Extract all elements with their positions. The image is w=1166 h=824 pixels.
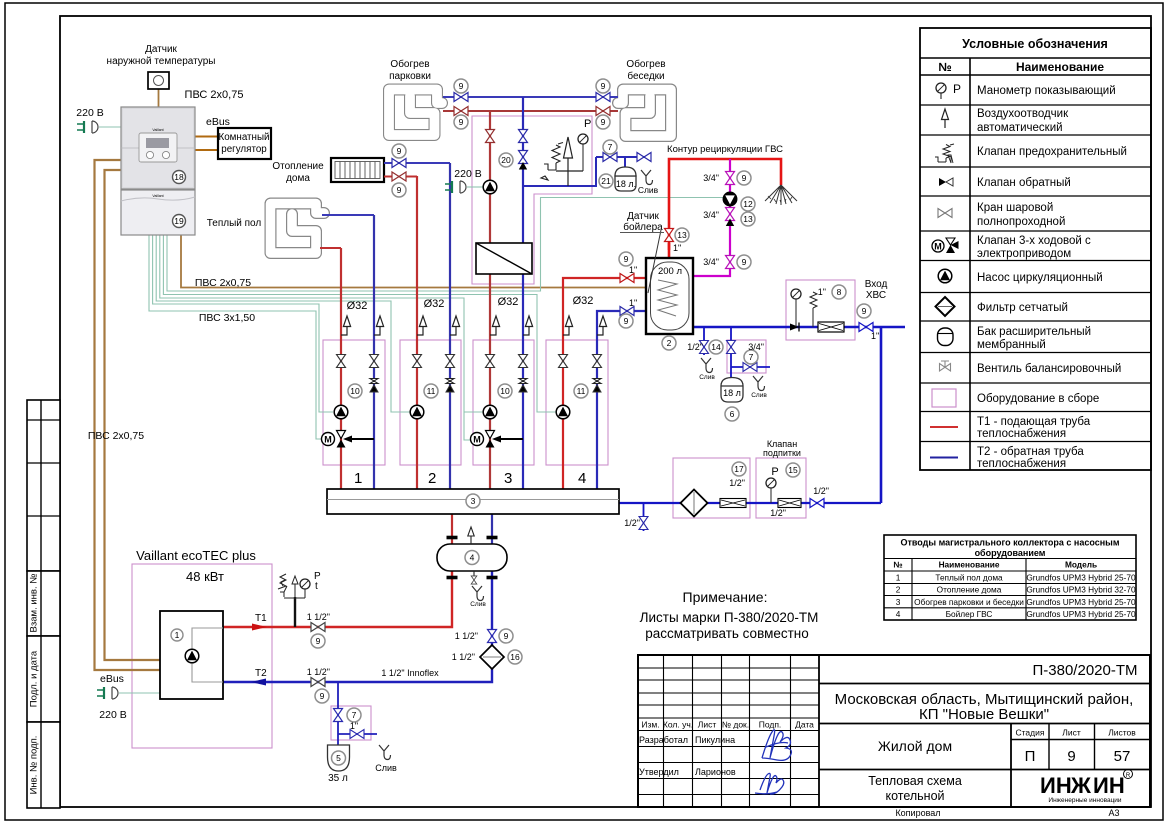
callout 16 at 515,657: [508, 650, 522, 664]
podpitka unit 8: check valve: [790, 323, 799, 332]
callout 3 at 473,501: [466, 494, 480, 508]
svg-text:9: 9: [1067, 748, 1075, 765]
svg-text:13: 13: [743, 214, 753, 224]
svg-text:9: 9: [397, 185, 402, 195]
brown wires boiler left down to ecoTEC: [95, 160, 161, 670]
svg-text:10: 10: [350, 386, 360, 396]
pink box make-up valve 7 (bottom): [331, 706, 371, 740]
T1 gauge group: air vent: [294, 590, 296, 598]
svg-text:1 1/2" Innoflex: 1 1/2" Innoflex: [381, 668, 439, 678]
legend symbol: 3-way valve with actuator: [932, 238, 959, 253]
svg-text:3/4": 3/4": [703, 173, 719, 183]
valves gazebo coil: [596, 93, 610, 102]
svg-text:M: M: [934, 242, 942, 252]
collector to separator red: [451, 514, 453, 544]
INZHIN logo: [1040, 770, 1133, 805]
svg-text:1": 1": [350, 721, 358, 731]
wire to M-valve group1: [149, 235, 325, 439]
svg-text:рассматривать совместно: рассматривать совместно: [645, 626, 809, 641]
safety group: air vent: [567, 158, 569, 171]
strainer 16 diamond: [480, 645, 504, 669]
svg-text:1": 1": [673, 243, 681, 253]
legend symbol: expansion tank: [938, 328, 954, 346]
svg-text:Теплый пол дома: Теплый пол дома: [935, 573, 1003, 583]
svg-text:220 В: 220 В: [76, 107, 103, 119]
svg-text:7: 7: [608, 142, 613, 152]
valve 13 on DHW riser: [665, 229, 674, 242]
svg-text:Ларионов: Ларионов: [695, 767, 736, 777]
svg-text:Подл. и дата: Подл. и дата: [29, 650, 40, 707]
pink box strainer 17: [673, 458, 750, 518]
svg-text:9: 9: [742, 257, 747, 267]
callout 11 at 431,391: [424, 384, 438, 398]
pink box mixing unit 20: [472, 116, 592, 284]
callout 9 at 603,122: [596, 115, 610, 129]
svg-text:Инв. № подп.: Инв. № подп.: [29, 736, 40, 795]
callout 7 at 354,715: [347, 708, 361, 722]
brown wire PVS 2x0.75 to DHW tank sensor: [181, 235, 646, 288]
pink box podpitka unit 8: [786, 280, 855, 340]
svg-text:57: 57: [1114, 748, 1131, 765]
T2 valve 1 1/2: [311, 678, 325, 687]
make-up water line to collector: [619, 502, 881, 504]
drain 14 siphon: [701, 358, 713, 373]
svg-text:13: 13: [677, 230, 687, 240]
svg-text:ПВС 2х0,75: ПВС 2х0,75: [185, 89, 244, 101]
expansion/safety branch blue: [523, 157, 649, 186]
separator to T1 red: [223, 571, 452, 627]
svg-text:10: 10: [500, 386, 510, 396]
recirculation pump 12: [723, 192, 737, 206]
T2 parking-gazebo supply blue top: [443, 96, 618, 98]
svg-text:Клапан 3-х ходовой с: Клапан 3-х ходовой с: [977, 235, 1091, 247]
callout 9 at 744,178: [737, 171, 751, 185]
svg-text:9: 9: [397, 146, 402, 156]
svg-text:eBus: eBus: [100, 673, 124, 685]
svg-text:Бак расширительный: Бак расширительный: [977, 326, 1091, 338]
svg-text:Наименование: Наименование: [1016, 60, 1104, 74]
collector to separator blue: [491, 514, 493, 544]
svg-text:Слив: Слив: [470, 601, 486, 608]
svg-text:9: 9: [504, 631, 509, 641]
brown wire sensor to boiler: [158, 89, 160, 107]
svg-text:1: 1: [896, 573, 901, 583]
svg-text:Grundfos UPM3 Hybrid 32-70: Grundfos UPM3 Hybrid 32-70: [1026, 585, 1136, 595]
svg-text:3: 3: [504, 470, 512, 487]
radiator blue pipe: [384, 162, 450, 164]
svg-text:Фильтр сетчатый: Фильтр сетчатый: [977, 302, 1068, 314]
make-up drain valve at collector: [639, 517, 648, 530]
svg-text:Модель: Модель: [1065, 560, 1097, 570]
svg-text:eBus: eBus: [206, 116, 230, 128]
svg-text:17: 17: [734, 464, 744, 474]
svg-text:ИН: ИН: [1040, 773, 1072, 798]
svg-text:П: П: [1025, 748, 1036, 765]
gazebo heating coil: [618, 90, 671, 137]
legend rows text: [977, 85, 1127, 470]
callout 10 at 505,391: [498, 384, 512, 398]
svg-text:6: 6: [730, 409, 735, 419]
legend table: [920, 28, 1151, 470]
svg-text:1": 1": [871, 331, 879, 341]
wire to pump group4: [163, 235, 556, 412]
svg-text:полнопроходной: полнопроходной: [977, 216, 1065, 228]
callout 14 at 716,347: [709, 340, 723, 354]
callout 13 at 682,235: [675, 228, 689, 242]
legend symbol: pressure gauge: [936, 82, 961, 99]
T1 valve 1 1/2: [311, 623, 325, 632]
svg-text:Теплый пол: Теплый пол: [207, 218, 262, 229]
callout 2 at 669,343: [662, 336, 676, 350]
svg-text:220 В: 220 В: [454, 168, 481, 180]
svg-text:Комнатный: Комнатный: [219, 132, 270, 143]
svg-text:Датчик: Датчик: [145, 44, 177, 55]
svg-text:11: 11: [427, 386, 436, 396]
safety group in mixing unit: spring safety valve: [552, 143, 563, 164]
svg-text:Grundfos UPM3 Hybrid 25-70: Grundfos UPM3 Hybrid 25-70: [1026, 573, 1136, 583]
plug 220V at ecoTEC: [97, 687, 118, 699]
svg-text:Манометр показывающий: Манометр показывающий: [977, 85, 1116, 97]
legend symbol: balancing valve: [940, 361, 951, 371]
svg-text:3/4": 3/4": [703, 257, 719, 267]
svg-text:9: 9: [316, 636, 321, 646]
riser blue group1: [373, 215, 375, 489]
tank5 horizontal valve 1": [350, 730, 364, 739]
svg-text:Взам. инв. №: Взам. инв. №: [29, 574, 40, 633]
svg-text:Оборудование в сборе: Оборудование в сборе: [977, 393, 1099, 405]
svg-text:бойлера: бойлера: [623, 221, 663, 233]
legend symbol: T2 line: [930, 457, 958, 459]
valves mixing unit red riser: [486, 130, 495, 143]
callout 9 at 864,311: [857, 304, 871, 318]
callout 9 at 322,696: [315, 689, 329, 703]
svg-text:P: P: [584, 118, 591, 130]
svg-text:Листы марки П-380/2020-ТМ: Листы марки П-380/2020-ТМ: [640, 610, 819, 625]
callout 11 at 581,391: [574, 384, 588, 398]
legend symbol: pump: [938, 269, 952, 283]
callout 9 at 603,86: [596, 79, 610, 93]
drain valve 14: [700, 341, 709, 354]
svg-text:8: 8: [837, 287, 842, 297]
svg-text:48 кВт: 48 кВт: [186, 569, 224, 584]
svg-text:Пикулина: Пикулина: [695, 735, 735, 745]
svg-text:Листов: Листов: [1108, 728, 1136, 738]
drain near tank 21: [641, 170, 653, 185]
air vents on risers: [341, 316, 351, 335]
svg-text:18: 18: [174, 172, 184, 182]
svg-text:Изм.: Изм.: [641, 720, 659, 730]
svg-text:4: 4: [578, 470, 586, 487]
svg-text:Инженерные инновации: Инженерные инновации: [1048, 797, 1122, 804]
svg-text:Бойлер ГВС: Бойлер ГВС: [946, 609, 993, 619]
drain valve on expansion branch: [637, 153, 651, 162]
valve on tank6 branch: [727, 341, 736, 354]
mixing pump 20: [483, 180, 497, 194]
svg-text:14: 14: [711, 342, 721, 352]
pink box pump group 3: [473, 340, 534, 465]
riser red group1: [340, 248, 342, 489]
svg-text:ПВС 3х1,50: ПВС 3х1,50: [199, 312, 255, 324]
svg-text:21: 21: [601, 176, 611, 186]
T1 gauge group: gauge: [300, 579, 310, 589]
svg-text:1 1/2": 1 1/2": [455, 631, 478, 641]
svg-text:M: M: [324, 435, 332, 445]
callout 9 at 626,259: [619, 252, 633, 266]
separator drain valve: [473, 571, 475, 576]
pink box make-up group 7 (near boiler): [727, 340, 766, 373]
svg-text:Слив: Слив: [699, 374, 715, 381]
svg-text:9: 9: [459, 81, 464, 91]
callout 9 at 626,321: [619, 314, 633, 328]
legend symbol: T1 line: [930, 426, 958, 428]
wire plug to ecoTEC (bottom): [119, 692, 160, 694]
warm floor blue pipe: [322, 214, 374, 216]
svg-text:9: 9: [320, 691, 325, 701]
svg-text:Обогрев: Обогрев: [626, 58, 665, 70]
svg-text:Тепловая схема: Тепловая схема: [868, 774, 962, 788]
svg-text:КП "Новые Вешки": КП "Новые Вешки": [919, 706, 1049, 723]
legend symbol: safety valve: [935, 144, 954, 163]
svg-text:автоматический: автоматический: [977, 122, 1063, 134]
svg-text:M: M: [473, 435, 481, 445]
svg-text:Vaillant: Vaillant: [152, 194, 163, 198]
svg-text:4: 4: [470, 553, 475, 563]
valve 7 on expansion branch: [603, 153, 617, 162]
warm floor coil: [271, 204, 325, 254]
riser blue group3 mixing: [522, 97, 524, 489]
svg-text:Отопление дома: Отопление дома: [937, 585, 1002, 595]
svg-text:9: 9: [862, 306, 867, 316]
boiler sensor leader line: [648, 230, 661, 293]
svg-text:теплоснабжения: теплоснабжения: [977, 458, 1066, 470]
svg-text:9: 9: [601, 81, 606, 91]
boiler charge red into tank: [646, 277, 659, 279]
svg-text:Слив: Слив: [638, 185, 659, 195]
svg-text:35 л: 35 л: [328, 773, 348, 784]
svg-text:№ док.: № док.: [722, 720, 749, 730]
svg-text:Т2 - обратная труба: Т2 - обратная труба: [977, 446, 1084, 458]
check valves on blue risers: [370, 379, 601, 393]
wire to recirculation pump 12: [167, 198, 723, 292]
svg-text:Клапан предохранительный: Клапан предохранительный: [977, 146, 1127, 158]
wire to pump/M group3: [160, 235, 483, 440]
expansion tank 6 branch: [731, 327, 770, 380]
svg-text:дома: дома: [286, 173, 310, 184]
gauge in box 15: [766, 478, 776, 488]
svg-text:Ø32: Ø32: [347, 300, 368, 312]
house heating radiator: [331, 158, 384, 182]
svg-text:4: 4: [896, 609, 901, 619]
expansion tank 21 branch: [624, 157, 626, 168]
svg-text:15: 15: [788, 465, 798, 475]
svg-text:регулятор: регулятор: [221, 144, 267, 155]
svg-text:мембранный: мембранный: [977, 339, 1046, 351]
plug 220V top left: [77, 121, 98, 133]
valves mixing unit blue riser: [519, 130, 528, 143]
safety group connecting lines: [556, 171, 583, 186]
svg-text:Воздухоотводчик: Воздухоотводчик: [977, 108, 1069, 120]
svg-text:Grundfos UPM3 Hybrid 25-70: Grundfos UPM3 Hybrid 25-70: [1026, 597, 1136, 607]
make-up drain branch: [643, 503, 645, 531]
callout 9 at 506,636: [499, 629, 513, 643]
svg-text:11: 11: [577, 386, 586, 396]
svg-text:теплоснабжения: теплоснабжения: [977, 428, 1066, 440]
svg-text:Обогрев парковки и беседки: Обогрев парковки и беседки: [914, 597, 1024, 607]
svg-text:3: 3: [896, 597, 901, 607]
svg-text:220 В: 220 В: [99, 709, 126, 721]
callout 5 at 338.5,758: [332, 751, 346, 765]
callout 9 at 318,641: [311, 634, 325, 648]
riser red group4 boiler charge: [563, 278, 646, 489]
XVS inlet riser down: [880, 327, 883, 503]
valves radiator: [392, 159, 406, 168]
svg-text:1/2": 1/2": [770, 508, 786, 518]
wire plug to pump 20: [467, 186, 483, 188]
callout 8 at 839,292: [832, 285, 846, 299]
svg-text:16: 16: [510, 652, 520, 662]
pink box pump group 1: [323, 340, 385, 465]
svg-text:3/4": 3/4": [703, 210, 719, 220]
svg-text:2: 2: [428, 470, 436, 487]
pink box pump group 2: [400, 340, 461, 465]
svg-text:P: P: [953, 82, 961, 96]
callout 9 at 744,262: [737, 255, 751, 269]
podpitka unit 8: pressure reducer: [818, 322, 844, 332]
callout 7 at 610,147: [603, 140, 617, 154]
svg-text:2: 2: [896, 585, 901, 595]
wire plug to boiler (top): [99, 126, 121, 128]
svg-text:Примечание:: Примечание:: [683, 589, 768, 605]
svg-text:Vaillant ecoTEC plus: Vaillant ecoTEC plus: [136, 548, 256, 563]
legend symbol: check valve: [939, 178, 953, 186]
warm floor red pipe: [320, 247, 341, 249]
svg-text:Наименование: Наименование: [939, 560, 1000, 570]
svg-text:подпитки: подпитки: [763, 448, 801, 458]
DHW recirculation magenta line: [694, 159, 730, 276]
svg-text:7: 7: [749, 352, 754, 362]
svg-text:Лист: Лист: [698, 720, 717, 730]
svg-text:П-380/2020-ТМ: П-380/2020-ТМ: [1033, 662, 1138, 679]
svg-text:1/2": 1/2": [624, 518, 640, 528]
svg-text:Ø32: Ø32: [424, 298, 445, 310]
safety group: gauge P: [578, 134, 588, 144]
svg-text:9: 9: [624, 254, 629, 264]
legend symbol: ball valve: [938, 209, 952, 218]
svg-text:2: 2: [667, 338, 672, 348]
callout 9 at 399,151: [392, 144, 406, 158]
valve on boiler charge red: [620, 274, 634, 283]
svg-text:18 л: 18 л: [723, 388, 741, 398]
svg-text:Контур рециркуляции ГВС: Контур рециркуляции ГВС: [667, 144, 783, 155]
svg-text:3/4": 3/4": [748, 342, 764, 352]
svg-text:Вентиль балансировочный: Вентиль балансировочный: [977, 363, 1121, 375]
boiler drain branch 14: [703, 327, 705, 355]
callout 9 at 461,86: [454, 79, 468, 93]
svg-text:9: 9: [601, 117, 606, 127]
svg-text:18 л.: 18 л.: [616, 179, 636, 189]
svg-text:Условные обозначения: Условные обозначения: [962, 37, 1108, 51]
svg-text:наружной температуры: наружной температуры: [107, 56, 216, 67]
svg-text:t: t: [315, 581, 318, 592]
svg-text:1": 1": [629, 265, 637, 275]
svg-text:Т1 - подающая труба: Т1 - подающая труба: [977, 416, 1091, 428]
svg-text:20: 20: [501, 155, 511, 165]
svg-text:ХВС: ХВС: [866, 290, 886, 301]
title block small headers: [641, 720, 814, 730]
pink box boiler Vaillant: [132, 564, 272, 748]
svg-text:1": 1": [818, 287, 826, 297]
svg-text:R: R: [1126, 773, 1131, 779]
svg-text:Утвердил: Утвердил: [639, 767, 679, 777]
callout 20 at 506,160: [499, 153, 513, 167]
podpitka unit 8: gauge: [791, 289, 801, 299]
svg-text:Слив: Слив: [375, 763, 397, 773]
valves on magenta recirculation: [726, 172, 735, 185]
teal wire bundle from boiler: [99, 127, 723, 693]
svg-text:Вход: Вход: [865, 279, 888, 290]
svg-text:9: 9: [459, 117, 464, 127]
svg-text:Насос циркуляционный: Насос циркуляционный: [977, 272, 1103, 284]
svg-text:T2: T2: [255, 668, 267, 679]
svg-text:Лист: Лист: [1062, 728, 1081, 738]
svg-text:9: 9: [624, 316, 629, 326]
callout 9 at 399,190: [392, 183, 406, 197]
svg-text:1 1/2": 1 1/2": [307, 612, 330, 622]
svg-text:1 1/2": 1 1/2": [307, 667, 330, 677]
svg-text:7: 7: [352, 710, 357, 720]
riser red group3 mixing: [489, 111, 491, 489]
podpitka unit 8: safety valve: [810, 292, 817, 308]
svg-text:200 л: 200 л: [658, 266, 682, 277]
strainer 17 diamond: [681, 490, 708, 517]
svg-text:Отводы магистрального коллекто: Отводы магистрального коллектора с насос…: [900, 538, 1119, 548]
wire to pump group1: [153, 235, 333, 412]
svg-text:1/2": 1/2": [729, 478, 745, 488]
tank 5 branch blue: [338, 682, 377, 745]
separator drain siphon: [472, 586, 484, 601]
riser red group2: [416, 176, 418, 489]
svg-text:Ж: Ж: [1070, 773, 1091, 798]
legend symbol: strainer: [936, 297, 955, 316]
svg-text:Жилой дом: Жилой дом: [878, 738, 952, 754]
boiler return blue into tank: [646, 310, 661, 312]
svg-text:оборудованием: оборудованием: [975, 548, 1046, 558]
svg-text:12: 12: [743, 199, 753, 209]
pink box pump group 4: [546, 340, 608, 465]
left stamp column boxes: [27, 400, 60, 808]
svg-text:3: 3: [471, 496, 476, 506]
svg-text:1/2": 1/2": [687, 342, 703, 352]
parking heating coil: [389, 90, 442, 136]
plug 220V at pump 20: [445, 181, 466, 193]
DHW recirculation loop red: [669, 159, 781, 250]
svg-text:ПВС 2х0,75: ПВС 2х0,75: [88, 430, 144, 442]
callout 9 at 461,122: [454, 115, 468, 129]
svg-text:P: P: [771, 466, 778, 478]
svg-text:19: 19: [174, 216, 184, 226]
drain near tank 6: [753, 376, 765, 391]
svg-text:А3: А3: [1108, 808, 1119, 818]
svg-text:1: 1: [354, 470, 362, 487]
svg-text:1": 1": [629, 298, 637, 308]
radiator red pipe: [384, 176, 417, 178]
svg-text:Слив: Слив: [751, 392, 767, 399]
make-up valve near riser: [810, 499, 824, 508]
valve 9 on XVS inlet: [859, 323, 873, 332]
callout 7 at 751,357: [744, 350, 758, 364]
svg-text:Grundfos UPM3 Hybrid 25-70: Grundfos UPM3 Hybrid 25-70: [1026, 609, 1136, 619]
svg-text:T1: T1: [255, 613, 267, 624]
